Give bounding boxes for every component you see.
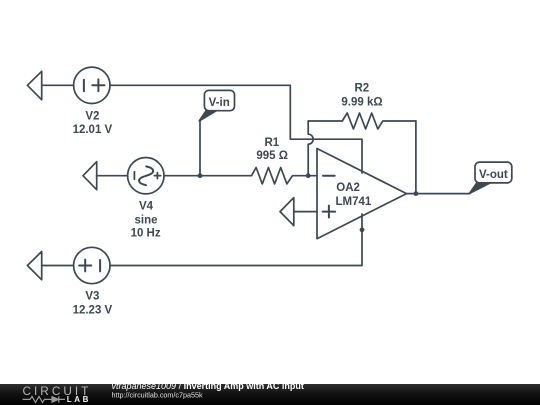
wire R2 left lead with hop over V+ wire <box>308 121 313 176</box>
ground G1 (V2 left) <box>27 71 41 100</box>
label R1 <box>264 137 279 149</box>
value 9.99 kohm <box>341 96 382 108</box>
wire ground to V4 <box>97 175 128 177</box>
junction dot V-in node <box>198 173 203 178</box>
logo CIRCUIT text <box>23 384 92 398</box>
resistor R1 <box>252 168 309 184</box>
value 10 Hz <box>131 228 161 240</box>
footer bar <box>0 384 540 405</box>
svg-text:V-out: V-out <box>479 169 508 181</box>
value 995 ohm <box>256 150 288 162</box>
junction dot op-amp V- node <box>360 227 365 232</box>
value 12.01 V <box>73 124 113 136</box>
svg-text:V3: V3 <box>85 290 99 302</box>
svg-text:10 Hz: 10 Hz <box>131 228 161 240</box>
op-amp OA2 body <box>317 149 407 239</box>
logo LAB text <box>67 395 91 404</box>
label V4 <box>139 200 154 212</box>
junction dot R1/R2/op-amp node <box>306 173 311 178</box>
label LM741 <box>336 196 372 208</box>
label V2 <box>85 110 99 122</box>
label V-in <box>209 97 230 109</box>
svg-text:sine: sine <box>134 214 157 226</box>
wire V4 to R1 <box>164 175 252 177</box>
node flag V-in <box>199 90 234 121</box>
svg-text:9.99 kΩ: 9.99 kΩ <box>341 96 382 108</box>
op-amp plus sign <box>323 206 336 218</box>
op-amp V- pin <box>361 214 363 230</box>
op-amp minus sign <box>323 175 335 177</box>
wire ground to op-amp + input <box>294 211 317 213</box>
logo resistor-diode squiggle <box>23 396 66 402</box>
svg-text:R1: R1 <box>264 137 279 149</box>
ground G3 (op-amp + input) <box>280 198 294 226</box>
label V-out <box>479 169 508 181</box>
node flag V-out <box>470 162 512 193</box>
voltage source V2 <box>74 67 110 103</box>
wire op-amp output to V-out <box>407 193 470 195</box>
svg-text:LM741: LM741 <box>336 196 372 208</box>
label V3 <box>85 290 99 302</box>
junction dot output node <box>414 191 419 196</box>
svg-text:R2: R2 <box>354 83 369 95</box>
ground G2 (V4 left) <box>83 162 97 190</box>
svg-text:12.23 V: 12.23 V <box>73 304 113 316</box>
resistor R2 <box>308 113 416 129</box>
sine source V4 <box>128 158 164 194</box>
ground G4 (V3 left) <box>27 252 41 280</box>
footer url line <box>112 391 203 400</box>
label R2 <box>354 83 369 95</box>
svg-text:http://circuitlab.com/c7pa55k: http://circuitlab.com/c7pa55k <box>112 391 203 400</box>
wire node to V-in flag <box>199 121 201 176</box>
value sine <box>134 214 157 226</box>
svg-text:V-in: V-in <box>209 97 230 109</box>
wire ground to V2 <box>42 84 74 86</box>
wire V2 to op-amp V+ pin <box>110 85 362 173</box>
svg-text:12.01 V: 12.01 V <box>73 124 113 136</box>
svg-text:V4: V4 <box>139 200 154 212</box>
wire V3 to op-amp V- pin <box>110 230 362 266</box>
wire R2 right lead to output <box>415 121 417 194</box>
footer title line <box>112 381 304 391</box>
svg-text:LAB: LAB <box>67 395 91 404</box>
svg-text:OA2: OA2 <box>336 182 360 194</box>
wire ground to V3 <box>42 265 74 267</box>
value 12.23 V <box>73 304 113 316</box>
voltage source V3 <box>74 247 110 283</box>
svg-text:995 Ω: 995 Ω <box>256 150 288 162</box>
label OA2 <box>336 182 360 194</box>
svg-text:V2: V2 <box>85 110 99 122</box>
wire R1 to op-amp minus input <box>308 175 317 177</box>
